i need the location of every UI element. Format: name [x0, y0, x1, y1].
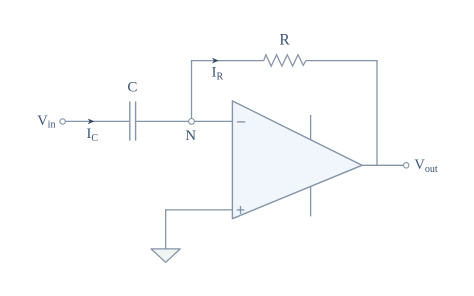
current arrow IC: [88, 119, 95, 125]
label N: [185, 128, 196, 144]
wire capacitor to op-amp inverting input: [136, 120, 232, 122]
wire node N up to feedback: [191, 61, 193, 119]
node Vout terminal circle: [404, 163, 409, 168]
node Vout terminal label: [414, 157, 437, 175]
wire Vin to capacitor: [66, 120, 130, 122]
svg-text:IR: IR: [212, 64, 224, 82]
svg-text:Vin: Vin: [37, 113, 55, 131]
op-amp U1 triangle: [232, 101, 362, 219]
label IR: [212, 64, 224, 82]
op-amp positive power pin: [310, 115, 312, 140]
svg-text:Vout: Vout: [414, 157, 437, 175]
node Vin terminal label: [37, 113, 55, 131]
op-amp negative power pin: [310, 186, 312, 216]
node N circle: [189, 119, 195, 125]
wire op-amp output: [362, 164, 403, 166]
label R: [279, 32, 290, 49]
op-amp plus sign: [237, 209, 245, 211]
svg-text:N: N: [185, 128, 196, 144]
current arrow IR: [212, 58, 219, 64]
node Vin terminal circle: [60, 119, 65, 124]
op-amp minus sign: [237, 121, 245, 123]
resistor R zigzag: [264, 55, 306, 66]
wire down to ground: [165, 209, 167, 248]
svg-text:C: C: [127, 80, 137, 96]
wire feedback top left: [191, 60, 264, 62]
wire feedback right down to output: [376, 60, 378, 165]
svg-text:IC: IC: [87, 126, 99, 144]
label IC: [87, 126, 99, 144]
svg-text:R: R: [279, 32, 290, 49]
wire resistor to right corner: [306, 60, 377, 62]
ground symbol: [151, 249, 180, 262]
label C: [127, 80, 137, 96]
capacitor C1 plates: [129, 102, 131, 141]
wire non-inverting input: [166, 209, 233, 211]
